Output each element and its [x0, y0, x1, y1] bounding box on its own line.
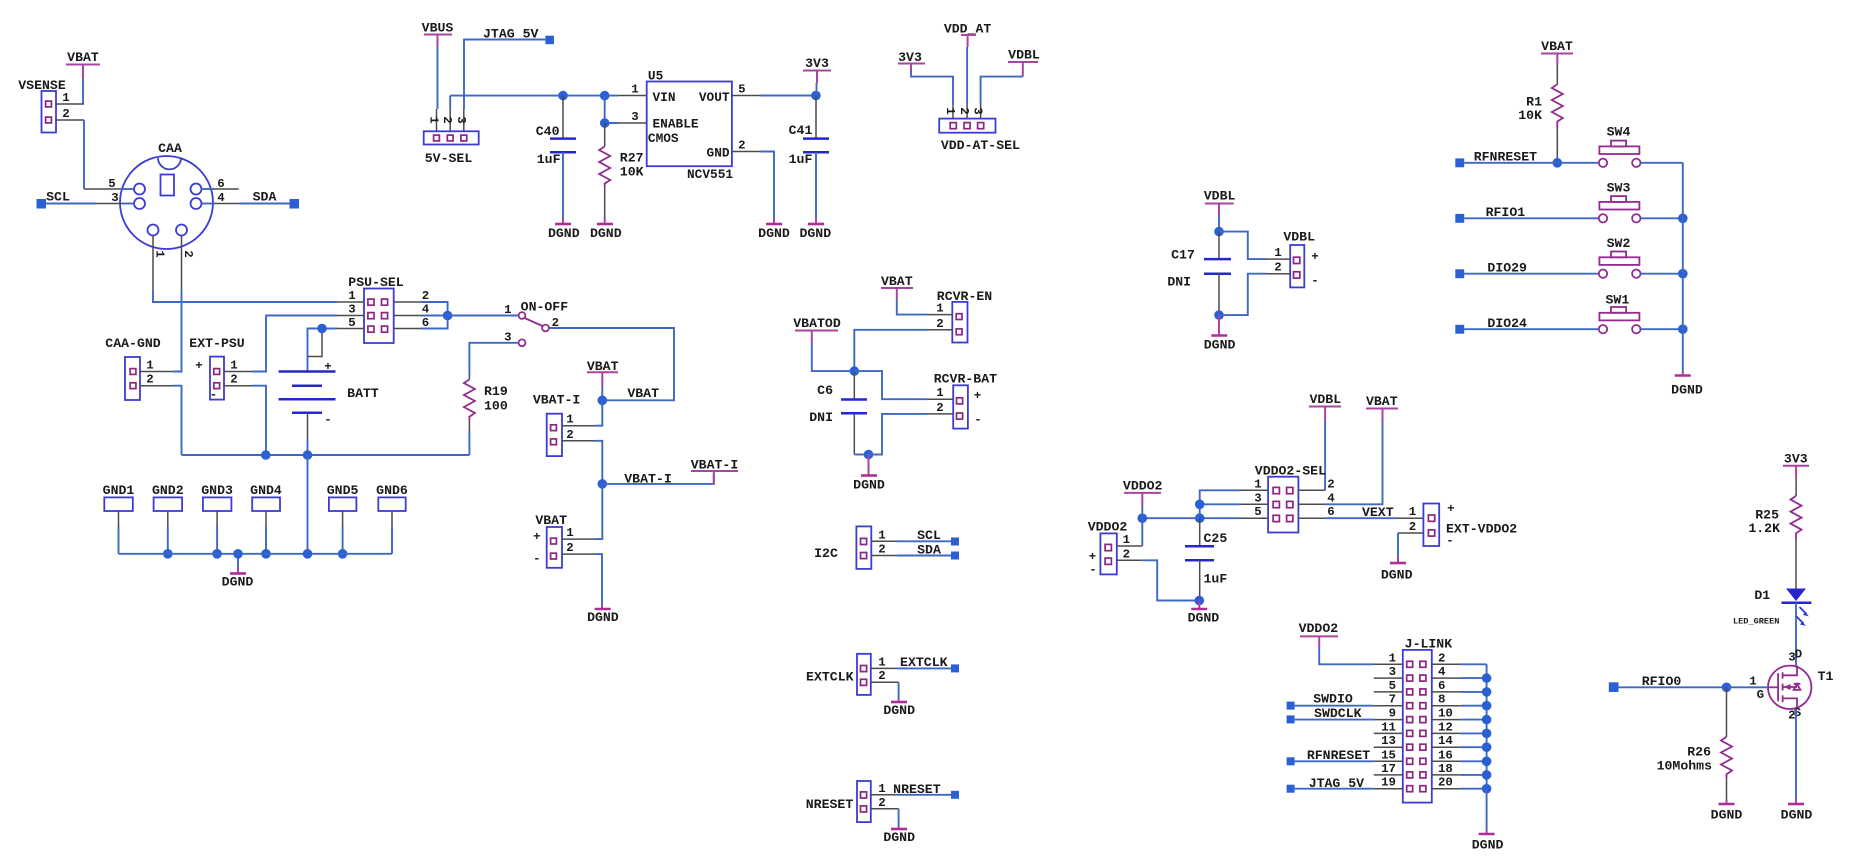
svg-text:SDA: SDA [917, 543, 941, 558]
svg-text:DGND: DGND [883, 830, 915, 845]
svg-text:C17: C17 [1171, 248, 1195, 263]
wire SW1 to right bus [1641, 324, 1688, 334]
wire J-LINK even pins to ground bus [1461, 664, 1487, 788]
connector GND6 [376, 483, 408, 554]
ground DGND (J-LINK) [1472, 834, 1504, 853]
svg-text:3: 3 [348, 303, 355, 317]
connector RCVR-EN body [952, 302, 967, 343]
svg-text:2: 2 [1438, 651, 1445, 665]
svg-text:VDBL: VDBL [1204, 189, 1236, 204]
svg-text:+: + [324, 360, 331, 374]
svg-text:+: + [1447, 502, 1454, 516]
svg-text:2: 2 [566, 541, 573, 555]
net SWDIO off-page [1287, 692, 1374, 710]
svg-text:C6: C6 [817, 383, 833, 398]
svg-text:DGND: DGND [590, 226, 622, 241]
svg-text:1: 1 [936, 302, 943, 316]
svg-text:S: S [1794, 706, 1802, 720]
wire VDDO2-SEL pin6 to EXT-VDDO2 pin1 [1325, 505, 1398, 520]
wire VDBL to VDD-AT-SEL pin3 [981, 77, 1023, 119]
svg-text:VDDO2: VDDO2 [1123, 479, 1163, 494]
svg-text:6: 6 [1438, 679, 1445, 693]
wire VBAT flag to node [598, 386, 608, 405]
svg-text:VOUT: VOUT [699, 90, 730, 105]
CAA pin 4 stub [202, 191, 239, 205]
wire 5V-SEL pin2 to rail [449, 96, 451, 132]
VBAT lower pin 2 stub [562, 541, 594, 555]
svg-text:3: 3 [1254, 491, 1261, 505]
transistor T1 [1768, 666, 1811, 710]
connector RCVR-BAT body [953, 385, 982, 428]
VDDO2-SEL pin 3 stub [1241, 491, 1268, 505]
LED light arrows [1797, 607, 1809, 626]
wire NRESET pin2 to DGND [898, 809, 900, 829]
wire T1 source to DGND [1795, 709, 1797, 804]
connector EXTCLK body [857, 654, 871, 695]
svg-text:14: 14 [1438, 734, 1453, 748]
VDD-AT-SEL pin numbers [943, 107, 985, 114]
svg-text:EXT-PSU: EXT-PSU [189, 336, 244, 351]
svg-text:1: 1 [1254, 477, 1261, 491]
wire ground bus horizontal [182, 450, 470, 460]
wire 3V3 to VDD-AT-SEL pin1 [911, 72, 953, 119]
connector I2C body [856, 526, 871, 569]
U5 pin 5 stub [732, 83, 760, 97]
connector NRESET label [806, 797, 854, 812]
connector PSU-SEL label [348, 275, 403, 290]
ground DGND (R26) [1711, 804, 1743, 823]
svg-text:5: 5 [108, 177, 115, 191]
svg-text:1: 1 [936, 386, 943, 400]
svg-text:1: 1 [878, 528, 885, 542]
svg-text:+: + [195, 359, 202, 373]
svg-text:3: 3 [971, 107, 985, 114]
CAA pin 1 stub [153, 236, 167, 290]
power flag 3V3 (LED) [1783, 451, 1809, 478]
battery BATT [279, 360, 379, 427]
svg-text:G: G [1757, 688, 1764, 702]
resistor R19 [464, 375, 508, 421]
svg-text:4: 4 [422, 303, 430, 317]
svg-text:3: 3 [631, 110, 638, 124]
CAA pin 2 stub [181, 236, 195, 290]
capacitor C41 [789, 96, 829, 168]
wire RCVR-BAT pin2 to node [869, 414, 928, 455]
capacitor C17 [1167, 232, 1231, 290]
svg-text:DGND: DGND [1381, 568, 1413, 583]
svg-text:CMOS: CMOS [648, 131, 679, 146]
svg-text:6: 6 [217, 177, 224, 191]
svg-text:-: - [1089, 563, 1096, 577]
VDDO2 pin 2 stub [1117, 547, 1143, 561]
svg-text:SW4: SW4 [1607, 125, 1631, 140]
power flag 3V3 (left of VDD-AT-SEL) [898, 50, 925, 72]
svg-text:1: 1 [1389, 651, 1396, 665]
svg-text:1uF: 1uF [537, 152, 561, 167]
wire VDDO2 flag to node [1141, 505, 1143, 518]
svg-text:3: 3 [1389, 665, 1396, 679]
ground DGND (C41) [799, 224, 831, 241]
svg-text:1: 1 [1123, 533, 1130, 547]
U5 pin 1 stub [618, 83, 647, 97]
wire EXTCLK pin2 to DGND [898, 682, 900, 701]
5V-SEL pin numbers [427, 116, 468, 123]
svg-text:5: 5 [348, 316, 355, 330]
power flag VBAT (top-left) [66, 50, 100, 78]
svg-text:-: - [1446, 534, 1453, 548]
svg-text:VBAT: VBAT [1366, 394, 1398, 409]
NRESET pin 2 stub [871, 796, 899, 810]
svg-text:VIN: VIN [653, 90, 676, 105]
RCVR-BAT pin 1 stub [927, 386, 953, 400]
svg-text:DGND: DGND [548, 226, 580, 241]
connector VBAT (lower) body [547, 527, 562, 568]
wire ENABLE net [600, 96, 647, 128]
CAA pin circles [134, 184, 202, 236]
power flag VBAT (RCVR) [881, 274, 913, 300]
svg-text:1: 1 [230, 359, 237, 373]
switch SW1 [1599, 293, 1641, 334]
J-LINK right stubs pins 2-20 [1432, 664, 1461, 788]
svg-text:2: 2 [1274, 261, 1281, 275]
svg-text:+: + [1311, 250, 1318, 264]
svg-text:CAA: CAA [158, 141, 182, 156]
svg-text:+: + [1089, 550, 1096, 564]
wire VBAT-I node down to VBAT conn pin1 [594, 484, 602, 539]
wire C17 node to VDBL conn pin2 [1219, 274, 1266, 315]
svg-text:19: 19 [1381, 776, 1396, 790]
wire C6 bottom to node [854, 413, 873, 459]
svg-text:VBAT: VBAT [627, 386, 659, 401]
ground DGND (EXT-VDDO2) [1381, 563, 1413, 583]
svg-text:1.2K: 1.2K [1748, 521, 1780, 536]
connector VDBL body [1290, 245, 1319, 288]
svg-text:3V3: 3V3 [805, 56, 829, 71]
svg-text:GND4: GND4 [250, 483, 282, 498]
svg-text:EXTCLK: EXTCLK [900, 655, 948, 670]
svg-text:VBAT-I: VBAT-I [533, 393, 580, 408]
svg-text:VDBL: VDBL [1008, 48, 1040, 63]
power flag VBAT (VDDO2-SEL) [1366, 394, 1398, 422]
svg-text:R27: R27 [620, 151, 644, 166]
svg-text:1: 1 [631, 83, 638, 97]
svg-text:EXT-VDDO2: EXT-VDDO2 [1446, 522, 1517, 537]
connector GND5 [327, 483, 359, 559]
resistor R25 [1748, 478, 1801, 540]
svg-text:-: - [533, 552, 540, 566]
net SDA off-page [239, 190, 299, 209]
CAA pin 5 stub [84, 177, 134, 191]
svg-text:1: 1 [504, 303, 511, 317]
svg-text:6: 6 [1327, 505, 1334, 519]
svg-text:VBUS: VBUS [422, 21, 454, 36]
svg-text:VBAT: VBAT [881, 274, 913, 289]
svg-text:12: 12 [1438, 720, 1453, 734]
svg-text:VBAT: VBAT [535, 513, 567, 528]
connector 5V-SEL body [424, 131, 479, 144]
wire bus drop to GND bus [307, 455, 309, 554]
power flag 3V3 (U5 output) [803, 56, 831, 96]
wire EXT-PSU pin2 to ground bus [252, 386, 266, 455]
wire VBAT-I node to flag [602, 474, 714, 484]
svg-text:2: 2 [878, 796, 885, 810]
connector CAA-GND label [105, 336, 160, 351]
wire VBAT to VSENSE pin1 [82, 78, 84, 104]
net DIO24 off-page (SW1) [1455, 316, 1598, 334]
wire C40 to DGND [562, 152, 564, 223]
wire EXT-VDDO2 pin2 to DGND [1397, 533, 1399, 563]
ground DGND (C6) [853, 476, 885, 493]
wire VBAT to VDDO2-SEL pin4 [1325, 422, 1383, 504]
power flag VBAT-I [691, 458, 738, 484]
svg-text:4: 4 [1327, 491, 1335, 505]
wire C41 to DGND [815, 152, 817, 223]
wire node to DGND (C6) [868, 455, 870, 476]
net RFIO0 off-page [1609, 674, 1731, 692]
wire SW2 to right bus [1641, 269, 1688, 279]
svg-text:1uF: 1uF [789, 152, 813, 167]
capacitor C25 [1185, 518, 1227, 586]
VDBL pin 2 stub [1266, 261, 1290, 275]
resistor R1 [1518, 65, 1563, 129]
svg-text:SWDIO: SWDIO [1313, 692, 1353, 707]
wire ON-OFF pin3 to R19 [469, 343, 518, 375]
svg-text:10K: 10K [620, 165, 644, 180]
VDBL pin 1 stub [1266, 246, 1290, 260]
svg-text:7: 7 [1389, 693, 1396, 707]
switch ON-OFF [504, 300, 568, 346]
junction dots J-LINK bus [1482, 673, 1492, 793]
ground DGND (R27) [590, 224, 622, 241]
wire PSU-SEL pins 2/4/6 tie [421, 302, 452, 329]
wire CAA-GND pin2 to ground bus [173, 386, 182, 455]
svg-text:5: 5 [738, 83, 745, 97]
EXT-PSU pin 2 stub [224, 373, 252, 387]
connector PSU-SEL body [364, 289, 394, 344]
svg-text:5V-SEL: 5V-SEL [425, 151, 473, 166]
J-LINK left stubs pins 1-19 [1374, 664, 1403, 788]
net JTAG_5V off-page (J-LINK) [1287, 776, 1374, 793]
wire VDDO2 pin2 to C25 bottom node [1142, 560, 1199, 600]
EXTCLK pin 2 stub [871, 669, 899, 683]
VBAT-I pin 2 stub [562, 428, 594, 442]
svg-text:-: - [1311, 274, 1318, 288]
svg-text:C40: C40 [536, 124, 560, 139]
svg-text:VDD-AT-SEL: VDD-AT-SEL [941, 138, 1020, 153]
svg-text:+: + [974, 389, 981, 403]
svg-text:DGND: DGND [1204, 338, 1236, 353]
svg-text:1uF: 1uF [1204, 572, 1228, 587]
power flag VBAT (middle) [587, 359, 619, 386]
svg-text:DGND: DGND [222, 575, 254, 590]
connector NRESET body [857, 781, 871, 822]
svg-text:DGND: DGND [587, 610, 619, 625]
ground DGND (EXTCLK) [883, 702, 915, 718]
svg-text:SW3: SW3 [1607, 181, 1631, 196]
net SDA off-page (I2C) [897, 543, 959, 560]
svg-text:2: 2 [181, 250, 195, 257]
svg-text:2: 2 [878, 669, 885, 683]
svg-text:1: 1 [146, 359, 153, 373]
NRESET pin 1 stub [871, 782, 897, 796]
svg-text:2: 2 [878, 543, 885, 557]
EXTCLK pin 1 stub [871, 655, 897, 669]
svg-text:1: 1 [1274, 246, 1281, 260]
svg-text:DGND: DGND [1781, 808, 1813, 823]
svg-text:10Mohms: 10Mohms [1657, 758, 1712, 773]
connector VSENSE body [42, 91, 57, 133]
switch SW4 [1599, 125, 1641, 168]
PSU-SEL pin 3 stub [337, 303, 364, 317]
U5 pin 3 stub [631, 110, 638, 124]
svg-text:D: D [1795, 648, 1802, 662]
wire R1 to RFNRESET row [1553, 129, 1563, 168]
svg-text:I2C: I2C [814, 546, 838, 561]
wire R26 to DGND [1726, 778, 1728, 804]
EXT-VDDO2 pin 2 stub [1398, 520, 1423, 534]
wire battery minus to ground bus [307, 413, 309, 455]
CAA pin 3 stub [111, 191, 118, 205]
svg-text:EXTCLK: EXTCLK [806, 670, 854, 685]
power flag VDBL (C17) [1204, 189, 1236, 216]
pin 1 VSENSE [56, 91, 84, 105]
svg-text:1: 1 [943, 107, 957, 114]
svg-text:DGND: DGND [799, 226, 831, 241]
wire C17 node to VDBL conn pin1 [1219, 232, 1266, 260]
wire R27 to DGND [604, 187, 606, 223]
wire J-LINK bus to DGND [1486, 789, 1488, 834]
svg-text:C25: C25 [1204, 531, 1228, 546]
wire C17 node to DGND [1218, 315, 1220, 335]
svg-text:4: 4 [217, 191, 225, 205]
capacitor C6 [809, 371, 867, 425]
power flag VDBL (right of VDD-AT-SEL) [1008, 48, 1040, 77]
svg-text:SDA: SDA [253, 190, 277, 205]
svg-text:SW1: SW1 [1606, 293, 1630, 308]
net RFNRESET off-page (J-LINK) [1287, 748, 1374, 765]
wire VDD_AT to VDD-AT-SEL pin2 [966, 47, 968, 119]
net DIO29 off-page (SW2) [1455, 261, 1598, 279]
svg-text:13: 13 [1381, 734, 1396, 748]
connector VDD-AT-SEL body [939, 119, 995, 133]
svg-text:GND3: GND3 [201, 483, 233, 498]
svg-text:DGND: DGND [1671, 383, 1703, 398]
ground DGND (GND bus) [222, 574, 254, 590]
connector J-LINK label [1405, 637, 1453, 652]
ground DGND (VBAT lower) [587, 609, 619, 625]
CAA pin 6 stub [202, 177, 239, 191]
svg-text:SCL: SCL [46, 190, 70, 205]
wire VBAT node to VBAT-I pin1 [594, 400, 602, 425]
PSU-SEL pin 6 stub [394, 316, 430, 330]
net RFIO1 off-page (SW3) [1455, 205, 1598, 223]
connector VDDO2-SEL label [1255, 464, 1326, 479]
svg-text:NRESET: NRESET [806, 797, 854, 812]
svg-text:2: 2 [62, 107, 69, 121]
resistor R26 [1657, 687, 1732, 778]
svg-text:2: 2 [422, 289, 429, 303]
power flag VDDO2 (J-LINK) [1299, 621, 1339, 648]
svg-text:20: 20 [1438, 776, 1453, 790]
wire VBAT to RCVR-EN pin1 [897, 300, 927, 315]
wire GND bus horizontal [119, 549, 393, 559]
svg-text:1: 1 [878, 782, 885, 796]
I2C pin 1 stub [871, 528, 897, 542]
wire VDDO2 pin1 up to node [1141, 518, 1143, 546]
I2C pin 2 stub [871, 543, 897, 557]
VDDO2 pin 1 stub [1117, 533, 1143, 547]
svg-text:2: 2 [230, 373, 237, 387]
svg-text:ENABLE: ENABLE [653, 117, 699, 132]
connector I2C label [814, 546, 838, 561]
switch SW3 [1599, 181, 1641, 223]
wire R25 to LED [1795, 540, 1797, 589]
svg-text:4: 4 [1438, 665, 1446, 679]
connector GND3 [201, 483, 233, 559]
connector VBAT-I body [547, 414, 562, 456]
svg-text:RCVR-BAT: RCVR-BAT [934, 372, 997, 387]
power flag VBUS [422, 21, 454, 47]
svg-text:GND2: GND2 [152, 483, 184, 498]
wire CAA pin1 to PSU-SEL pin1 [153, 290, 337, 302]
wire VBAT-I pin2 to VBAT-I node [594, 441, 607, 489]
power flag VDD_AT [944, 22, 992, 48]
connector EXTCLK label [806, 670, 854, 685]
connector RCVR-EN label [937, 289, 992, 304]
wire VDDO2-SEL pins 1/3/5 tie [1195, 490, 1241, 523]
svg-text:3V3: 3V3 [1784, 451, 1808, 466]
svg-text:2: 2 [566, 428, 573, 442]
op-amp U5 body [647, 69, 734, 183]
svg-text:1: 1 [566, 526, 573, 540]
svg-text:NCV551: NCV551 [687, 167, 733, 182]
svg-text:-: - [210, 388, 217, 402]
svg-text:-: - [324, 413, 331, 427]
wire VBAT lower pin2 to DGND [594, 554, 602, 609]
connector VDBL label [1283, 230, 1315, 245]
connector VSENSE label [18, 78, 66, 93]
svg-text:DNI: DNI [1167, 275, 1191, 290]
svg-text:NRESET: NRESET [893, 782, 941, 797]
power flag VBAT (R1) [1541, 39, 1573, 65]
connector VBAT (lower) label [533, 513, 567, 566]
LED D1 [1733, 588, 1811, 627]
wire VOUT to 3V3 node [760, 91, 821, 101]
svg-text:VDBL: VDBL [1283, 230, 1315, 245]
PSU-SEL pin 4 stub [394, 303, 430, 317]
wire R19 to ground bus [468, 421, 470, 456]
connector CAA circular body [120, 156, 213, 249]
svg-text:3: 3 [454, 116, 468, 123]
power flag VDBL (VDDO2-SEL) [1309, 392, 1341, 420]
svg-text:+: + [533, 530, 540, 544]
svg-text:15: 15 [1381, 748, 1396, 762]
connector RCVR-BAT label [934, 372, 997, 387]
VDDO2-SEL pin 4 stub [1298, 491, 1335, 505]
svg-text:2: 2 [440, 116, 454, 123]
svg-text:GND: GND [707, 146, 730, 161]
connector GND2 [152, 483, 184, 559]
RCVR-BAT pin 2 stub [927, 401, 953, 415]
wire PSU-SEL tie to ON-OFF pin1 [448, 315, 519, 317]
connector EXT-PSU body [195, 357, 224, 402]
wire node to DGND (C25) [1198, 601, 1200, 609]
CAA-GND pin 2 stub [140, 373, 173, 387]
T1 pin labels [1749, 648, 1833, 723]
wire RFIO0 to T1 gate [1727, 686, 1769, 688]
net SCL off-page [37, 190, 135, 209]
capacitor C40 [536, 96, 576, 167]
